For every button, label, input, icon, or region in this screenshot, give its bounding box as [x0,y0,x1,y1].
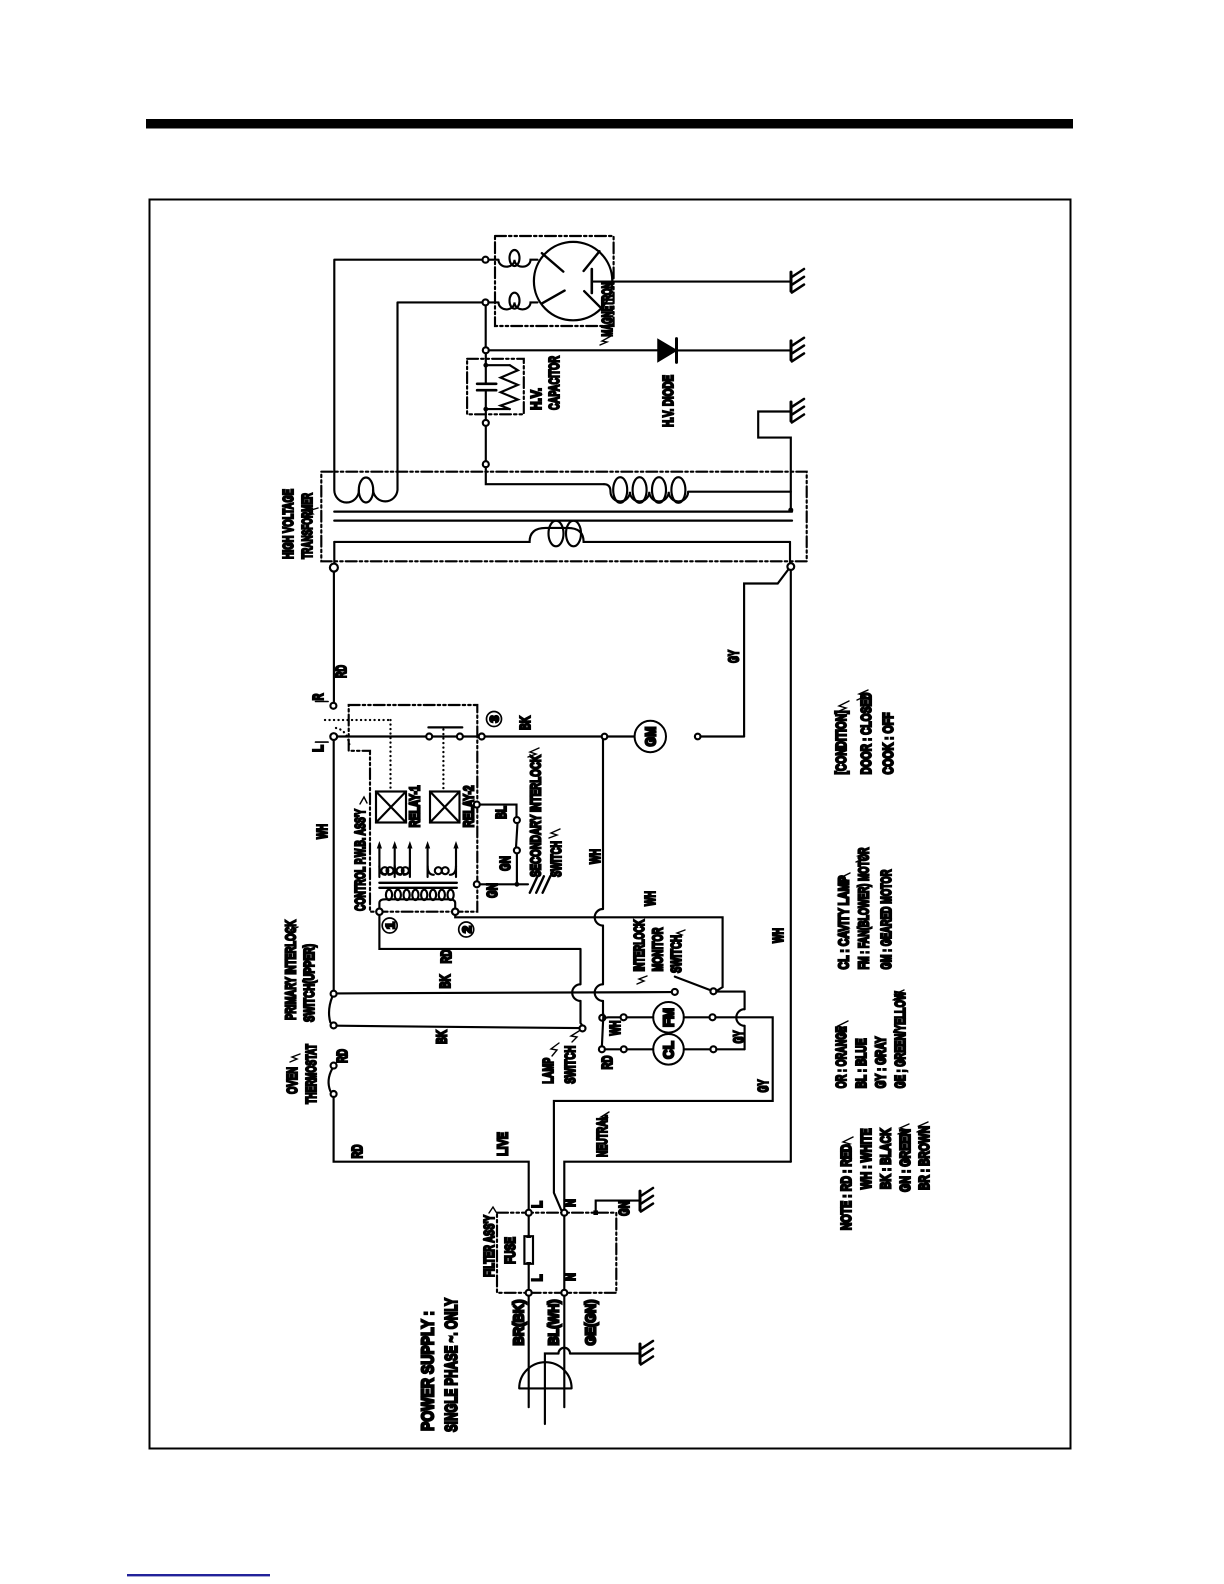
ground: filter GN [640,1188,653,1212]
wire WH: PWB terminal 2 to monitor switch [455,915,722,991]
bleeder resistor link top [486,364,510,366]
svg-text:PRIMARY INTERLOCK: PRIMARY INTERLOCK [283,920,300,1020]
bleeder resistor link bottom [486,408,510,410]
wire: primary left lead down [333,542,335,564]
ground: magnetron antenna [791,269,804,293]
svg-text:RD: RD [334,1049,351,1063]
wire GY: transformer terminal to GM [744,569,788,736]
svg-text:LIVE: LIVE [495,1132,512,1156]
cook switch pole L [330,733,337,740]
LV transformer secondary taps with arrows (group 2) [428,849,456,877]
node: LV primary terminal 2 [452,909,458,915]
svg-text:BL: BL [493,806,510,819]
wire: transformer tap into box [486,467,604,484]
ground: secondary interlock switch [530,876,551,893]
wire: capacitor to transformer secondary tap [485,426,487,461]
LV transformer secondary taps with arrows (group 1) [379,849,410,877]
geared motor GM terminals [602,734,608,740]
svg-text:GE(GN): GE(GN) [583,1300,600,1346]
svg-text:GE ; GREEN/YELLOW: GE ; GREEN/YELLOW [892,991,909,1089]
wire WH: L pole down to primary interlock [333,740,335,990]
svg-text:R: R [310,693,327,700]
primary interlock switch bottom contact [331,1022,337,1028]
filter assy enclosure [497,1213,616,1293]
svg-text:GN : GREEN: GN : GREEN [897,1129,914,1192]
svg-text:SECONDARY INTERLOCK: SECONDARY INTERLOCK [528,755,545,877]
node: diode junction [483,347,489,353]
capacitor C plates [477,384,496,390]
svg-text:GY: GY [755,1080,772,1093]
svg-text:L: L [529,1275,546,1282]
svg-text:H.V. DIODE: H.V. DIODE [660,375,677,427]
svg-text:2: 2 [460,926,474,933]
svg-text:WH: WH [587,849,604,864]
cavity lamp CL body [653,1034,684,1065]
magnetron U1 body [534,242,612,320]
node: bus terminal on box edge [479,734,485,740]
lamp switch blade [602,1014,604,1046]
interlock monitor switch left contact [672,989,678,995]
wire BK: interlock top to monitor switch [337,992,672,993]
wire: secondary ground jog [758,412,791,508]
wire GE: earth prong to chassis [545,1354,639,1425]
svg-text:FUSE: FUSE [502,1237,519,1264]
secondary interlock switch top contact [514,817,520,823]
HV diode D1 triangle [658,340,676,362]
wire: plug live prong [528,1296,530,1407]
node: capacitor bottom junction dot [483,407,488,412]
node 3 circled [487,712,502,727]
svg-text:WH : WHITE: WH : WHITE [858,1128,875,1189]
LV transformer core [379,883,456,888]
leader arrow for ASS'Y [360,797,367,804]
svg-text:BK: BK [517,716,534,730]
wire: CL line [605,1048,621,1050]
node: transformer primary left terminal [330,564,338,572]
svg-text:WH: WH [642,891,659,906]
circled 2 [459,922,474,937]
svg-text:SWITCH: SWITCH [668,935,685,973]
wire WH: transformer terminal down to neutral bus [790,570,792,1162]
transformer primary winding (2 loops) [334,528,790,542]
transformer core lines [334,512,792,521]
svg-text:BL(WH): BL(WH) [546,1300,563,1346]
svg-text:FILTER ASS'Y: FILTER ASS'Y [481,1215,498,1277]
lamp switch bottom contact [599,1046,605,1052]
wire: GM right to GY riser [701,735,745,737]
node: transformer primary right terminal [787,563,794,570]
magnetron filament terminal 1 [483,257,489,263]
fuse F1 [528,1216,530,1290]
svg-text:BK: BK [434,1030,451,1044]
svg-text:GY : GRAY: GY : GRAY [873,1036,890,1088]
svg-text:SWITCH: SWITCH [562,1046,579,1084]
wire: filament lead 1 (top) [334,260,482,472]
HV diode cathode bar [675,339,678,363]
svg-text:CL : CAVITY LAMP: CL : CAVITY LAMP [836,876,853,970]
svg-text:RD: RD [438,949,455,963]
relay-1 contact terminals on bus [426,734,432,740]
svg-text:CONTROL P.W.B. ASS'Y: CONTROL P.W.B. ASS'Y [352,809,369,911]
hop: WH riser over PWB wire [595,909,603,926]
svg-text:CL: CL [661,1041,678,1059]
oven thermostat top contact [331,1063,337,1069]
svg-text:SINGLE PHASE ~. ONLY: SINGLE PHASE ~. ONLY [441,1298,461,1432]
svg-text:N: N [562,1199,579,1207]
dotted linkage arc at cook switch [336,728,350,749]
svg-text:3: 3 [488,715,502,722]
wire BK: interlock bottom to lamp switch [337,1026,580,1028]
leader arrow for MAGNETRON [600,336,611,345]
primary interlock switch top contact [331,991,337,997]
transformer secondary winding (4 loops) [604,484,791,501]
node: GN tap on filter edge [593,1210,598,1215]
svg-text:OVEN: OVEN [284,1067,301,1094]
node: LV primary terminal 1 [376,909,382,915]
transformer filament winding [334,472,397,503]
svg-text:INTERLOCK: INTERLOCK [631,919,648,971]
svg-text:BK: BK [437,974,454,988]
node: filter N output [561,1290,567,1296]
svg-text:RD: RD [333,665,350,678]
svg-text:RD: RD [599,1055,616,1069]
svg-text:CAPACITOR: CAPACITOR [546,356,563,410]
wire GY: FM to neutral [554,1017,773,1211]
svg-text:FM: FM [661,1008,678,1027]
svg-text:N: N [562,1273,579,1281]
dotted linkage relay-2 to contact [442,730,444,790]
wire RD: primary left to cook relay contact R [333,572,335,703]
svg-text:DOOR : CLOSED: DOOR : CLOSED [858,692,875,774]
fan motor FM terminals [621,1014,627,1020]
hop: GY drop over FM wire [736,1009,744,1026]
node: transformer tap terminal [483,461,489,467]
lamp switch top contact [599,1015,605,1021]
cavity lamp CL terminals [621,1046,627,1052]
top black title bar [146,119,1073,129]
svg-text:OR : ORANGE: OR : ORANGE [833,1026,850,1088]
wire: magnetron antenna to chassis [593,281,790,283]
svg-text:WH: WH [607,1021,624,1036]
secondary interlock switch blade [516,823,518,847]
svg-text:GM: GM [643,727,660,747]
HV capacitor enclosure box [467,359,524,415]
svg-text:LAMP: LAMP [540,1058,557,1084]
svg-text:GY: GY [726,650,743,663]
svg-text:SWITCH(UPPER): SWITCH(UPPER) [301,944,318,1022]
wire RD: PWB terminal 1 to lamp switch [379,915,582,1026]
control PWB assy enclosure (notched) [349,705,478,912]
svg-text:GY: GY [731,1031,748,1044]
leader zigzags on component labels [288,748,685,1122]
svg-text:WH: WH [770,928,787,943]
svg-text:BK : BLACK: BK : BLACK [878,1128,895,1189]
node: SIS return terminal on box edge [474,881,480,887]
svg-text:BR(BK): BR(BK) [511,1300,528,1346]
geared motor GM body [635,721,666,752]
wire: primary right lead down [789,542,791,564]
lamp switch feed contact [580,1025,586,1031]
ground: HV diode [791,338,804,362]
magnetron enclosure box [495,236,614,326]
svg-text:BL : BLUE: BL : BLUE [853,1038,870,1088]
relay-2 contact bar [428,726,462,728]
svg-text:GN: GN [497,856,514,871]
cook switch contact R [330,703,336,709]
svg-text:FM : FAN(BLOWER) MOTOR: FM : FAN(BLOWER) MOTOR [855,847,872,969]
svg-text:GM : GEARED MOTOR: GM : GEARED MOTOR [878,869,895,969]
wire: CL right to monitor drop [716,1048,744,1050]
svg-text:COOK : OFF: COOK : OFF [880,713,897,775]
interlock monitor switch right contact [710,988,716,994]
circled 1 [382,918,397,933]
wire: FM line [605,1016,620,1019]
ground: plug earth [640,1341,653,1365]
svg-text:1: 1 [383,922,397,929]
oven thermostat blade [329,1069,333,1091]
svg-text:RELAY-1: RELAY-1 [407,786,424,828]
svg-text:SWITCH: SWITCH [548,841,565,877]
wire RD: thermostat to LIVE rail [334,1097,529,1210]
svg-text:NOTE : RD : RED: NOTE : RD : RED [838,1144,855,1230]
wire: HV bus from filament terminal 2 down through capacitor [485,305,487,347]
node: capacitor lower terminal [483,420,489,426]
wire GY: monitor switch to CL line [716,992,744,1050]
node: SIS junction dot [515,882,520,887]
interlock monitor switch blade [675,977,711,991]
fan motor FM body [653,1002,684,1033]
SIS feed terminal on box edge [474,802,480,808]
hop: GE wire over N prong [559,1348,571,1354]
leader arrows lamp switch [551,1043,559,1056]
svg-text:[CONDITION]: [CONDITION] [833,710,850,774]
wire: junction to capacitor top [485,353,487,383]
ground: transformer secondary chassis [791,399,804,423]
leader arrow filter assy [489,1207,496,1213]
wire GN: filter tap to chassis [596,1201,639,1211]
schematic border frame [150,200,1071,1449]
wire WH: GM junction down to lamp switch [602,739,604,1015]
magnetron filament choke 1 [489,260,538,267]
hop: WH riser over BK wire [595,984,603,1001]
bleeder resistor zigzag [501,365,518,409]
node: filter L output [526,1290,532,1296]
primary interlock switch blade [329,997,332,1023]
wire: plug neutral prong [563,1296,565,1407]
svg-text:L: L [310,745,327,752]
plug body dome [519,1362,571,1388]
leader arrow for TRANSFORMER [305,508,318,516]
svg-text:HIGH VOLTAGE: HIGH VOLTAGE [280,489,297,559]
dotted linkage relay-1 to contact [325,720,391,790]
relay R2 coil box [430,792,460,823]
magnetron cathode/anode internals [542,251,601,308]
svg-text:RD: RD [349,1144,366,1158]
svg-text:GN: GN [484,883,501,898]
wire GN: SIS bottom to box edge and chassis [477,853,528,884]
svg-text:TRANSFORMER: TRANSFORMER [299,493,316,559]
LV transformer primary coil [379,899,455,908]
wire: filter N through [563,1216,565,1290]
node: filter N input [561,1210,567,1216]
leader zigzags on legend labels [836,690,928,1148]
node: core junction dot [788,508,793,513]
oven thermostat bottom contact [331,1091,337,1097]
LV transformer secondary loops (group 1) [379,866,410,875]
relay R1 coil box [376,792,406,823]
hop: RD riser over BK wire [572,984,580,1001]
wire: CL inner leads [627,1048,710,1050]
wire BL: to secondary interlock switch [480,805,517,817]
magnetron filament terminal 2 [483,299,489,305]
wire: filament lead 2 [398,302,483,471]
node: filter L input [526,1210,532,1216]
wire: capacitor bottom [485,391,487,420]
svg-text:POWER SUPPLY :: POWER SUPPLY : [418,1311,438,1431]
LV transformer secondary loops (group 2) [428,866,456,875]
main BK bus: L pole to GM [337,735,635,737]
wire: NEUTRAL rail [564,1162,791,1210]
svg-text:H.V.: H.V. [528,388,545,410]
svg-text:L: L [529,1201,546,1208]
node: capacitor top junction dot [483,363,488,368]
wire: HV diode anode line [489,349,658,351]
svg-text:GN: GN [616,1201,633,1216]
svg-text:BR : BROWN: BR : BROWN [916,1126,933,1190]
svg-text:WH: WH [314,824,331,839]
high voltage transformer enclosure [321,472,806,562]
magnetron filament choke 2 [489,302,538,309]
svg-text:MONITOR: MONITOR [649,927,666,971]
wire: FM inner leads [627,1016,710,1018]
secondary interlock switch bottom contact [514,847,520,853]
footer blue line [127,1574,270,1576]
svg-text:MAGNETRON: MAGNETRON [599,283,616,337]
svg-text:THERMOSTAT: THERMOSTAT [303,1044,320,1104]
wire: diode cathode to chassis [677,349,791,351]
